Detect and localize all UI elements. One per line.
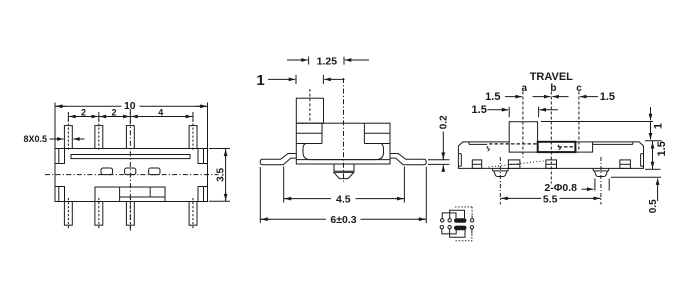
left view slider block	[95, 187, 165, 202]
svg-text:4: 4	[158, 108, 163, 118]
right view slider contact plate (bold)	[538, 142, 576, 152]
right view bottom contact 2	[508, 160, 520, 169]
right view break squiggle 2	[558, 145, 560, 150]
top pin centerlines	[68, 120, 193, 152]
right view knob	[509, 122, 537, 152]
left view vertical centerline	[129, 109, 131, 232]
schematic contact blob top	[454, 218, 467, 223]
middle view vertical centerline	[343, 78, 345, 182]
svg-text:1: 1	[653, 123, 665, 129]
schematic terminal circles bottom	[440, 226, 474, 230]
middle view right leg	[390, 154, 426, 165]
svg-text:4.5: 4.5	[336, 193, 351, 205]
schematic terminal circles top	[441, 219, 474, 222]
right view dome foot 2	[593, 168, 609, 176]
left view top pin 1	[64, 126, 72, 149]
left view slot hole 3	[149, 168, 160, 175]
svg-text:b: b	[550, 83, 556, 94]
left view bottom pin 4	[189, 202, 197, 226]
dimension 6±0.3	[260, 167, 426, 223]
schematic wire top A	[442, 213, 456, 219]
svg-text:10: 10	[124, 100, 136, 112]
svg-text:1: 1	[256, 72, 264, 89]
svg-text:TRAVEL: TRAVEL	[530, 71, 573, 83]
left view slot hole 2	[125, 168, 136, 175]
dimension 4.5	[284, 167, 405, 203]
svg-text:1.5: 1.5	[656, 141, 668, 156]
middle view body	[296, 123, 390, 164]
svg-text:3.5: 3.5	[215, 168, 226, 182]
dimension 0.2	[428, 132, 450, 173]
left view tab top-left	[55, 149, 65, 164]
dimension 1.25	[287, 57, 369, 65]
svg-text:8X0.5: 8X0.5	[24, 134, 48, 144]
right view dashed position line a	[522, 92, 524, 158]
svg-text:1.5: 1.5	[472, 104, 487, 116]
phi0.8 extension lines	[594, 179, 596, 191]
svg-text:a: a	[522, 83, 528, 94]
middle view bottom band	[296, 159, 390, 161]
right view right notch	[641, 154, 644, 167]
svg-text:1.25: 1.25	[317, 55, 338, 67]
dimension travel 1.5 left	[505, 96, 598, 98]
dimension 1.5 (right)	[645, 141, 661, 170]
left view top pin 2	[95, 126, 103, 149]
left view bottom pin 2	[95, 202, 103, 226]
schematic common stub top	[471, 216, 473, 219]
right view dome 2 centerline	[600, 157, 602, 205]
right view dome foot 1	[493, 168, 509, 176]
left view horizontal centerline	[45, 174, 219, 176]
middle view right tab lines	[364, 123, 390, 143]
dimension 8X0.5 arrows	[50, 138, 85, 140]
schematic wire top B	[450, 210, 465, 218]
schematic contact blob bottom	[454, 226, 467, 231]
right view break squiggle 1	[487, 146, 489, 151]
schematic wire bottom C	[442, 229, 456, 234]
right view body	[458, 142, 643, 169]
bottom pin centerlines	[68, 198, 193, 230]
dimension 1 (right)	[541, 107, 662, 141]
svg-text:0.5: 0.5	[648, 199, 659, 213]
right view slider phantom dashes	[489, 144, 575, 147]
svg-text:1.5: 1.5	[600, 91, 615, 103]
middle view channel	[303, 144, 384, 160]
left view top pin 4	[189, 126, 197, 149]
svg-text:1.5: 1.5	[485, 91, 500, 103]
left view tab top-right	[198, 149, 208, 164]
right view bottom contact 4	[620, 160, 631, 169]
schematic dashed frame	[455, 207, 473, 241]
dimension 5.5	[500, 197, 601, 199]
dimension 1 (middle)	[268, 75, 345, 84]
dimension 10	[55, 103, 208, 149]
middle view knob	[296, 98, 323, 123]
right view dashed position line b	[550, 92, 552, 184]
right view bottom contact 1	[472, 160, 481, 169]
left view bottom pin 1	[64, 202, 72, 226]
dimension knob 1.5	[488, 107, 559, 118]
middle view left tab lines	[296, 123, 322, 143]
right view bottom contact 3	[546, 160, 557, 169]
left view bottom pin 3	[126, 202, 134, 226]
left view tab bottom-right	[198, 187, 208, 202]
schematic common stub bottom	[471, 229, 473, 234]
dimension 0.5 (right)	[611, 177, 661, 201]
middle view left leg	[260, 154, 296, 165]
middle view bottom bump	[334, 164, 354, 179]
svg-text:2: 2	[81, 108, 86, 118]
middle view knob centerline	[309, 89, 311, 123]
left view body	[55, 149, 208, 202]
left view top pin 3	[126, 126, 134, 149]
dimension 2-phi0.8 leader	[582, 188, 594, 190]
right view left notch	[458, 154, 461, 167]
dimension 3.5	[209, 149, 230, 202]
left view top slot bar	[71, 155, 190, 159]
svg-text:2: 2	[111, 108, 116, 118]
left view tab bottom-left	[55, 187, 65, 202]
schematic wire bottom D	[450, 229, 465, 237]
right view slider tail rect	[575, 142, 592, 152]
svg-text:c: c	[576, 83, 582, 94]
svg-text:6±0.3: 6±0.3	[330, 214, 356, 226]
svg-text:0.2: 0.2	[438, 115, 449, 129]
right view inner cover line	[469, 142, 633, 145]
left view slot hole 1	[101, 168, 113, 175]
right view dashed position line c	[578, 92, 580, 151]
right view dotted spring line	[489, 161, 546, 167]
svg-text:5.5: 5.5	[543, 194, 558, 206]
right view dome 1 centerline	[499, 157, 501, 205]
svg-text:2-Φ0.8: 2-Φ0.8	[544, 182, 577, 194]
dimension 2 2 4	[68, 112, 193, 122]
